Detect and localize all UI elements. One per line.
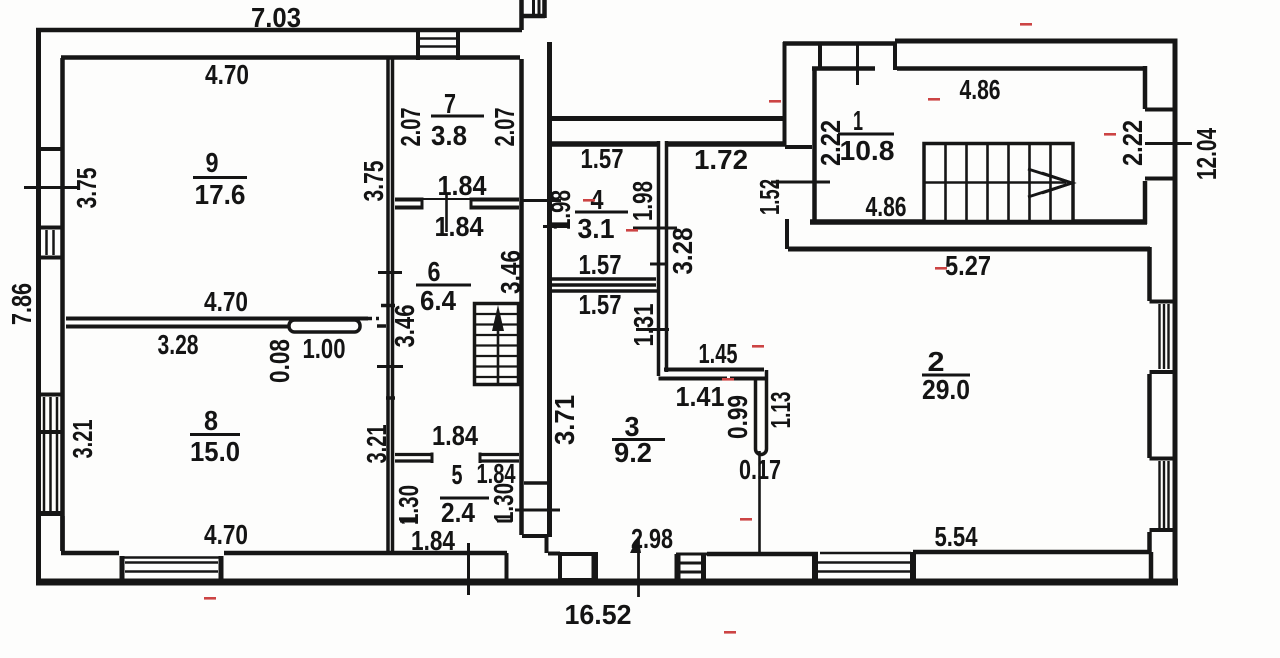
svg-text:4.70: 4.70	[204, 519, 248, 550]
svg-text:1.00: 1.00	[303, 333, 346, 364]
svg-text:16.52: 16.52	[565, 599, 632, 630]
svg-text:0.99: 0.99	[722, 395, 753, 439]
svg-text:1.84: 1.84	[438, 170, 487, 201]
svg-text:9: 9	[206, 147, 219, 178]
svg-text:4.70: 4.70	[204, 286, 248, 317]
svg-text:3.46: 3.46	[495, 250, 526, 294]
svg-text:2: 2	[928, 346, 945, 377]
svg-text:1.57: 1.57	[579, 289, 622, 320]
svg-text:2.22: 2.22	[815, 120, 846, 166]
svg-text:7.03: 7.03	[251, 2, 301, 33]
svg-text:29.0: 29.0	[922, 374, 970, 405]
svg-text:2.22: 2.22	[1117, 120, 1148, 166]
svg-text:7.86: 7.86	[6, 283, 37, 325]
svg-text:0.17: 0.17	[739, 454, 781, 485]
svg-text:1.57: 1.57	[579, 249, 622, 280]
svg-text:3.75: 3.75	[358, 161, 389, 202]
svg-text:3.8: 3.8	[431, 120, 467, 151]
svg-text:2.07: 2.07	[395, 108, 426, 147]
svg-text:1.72: 1.72	[694, 144, 748, 175]
svg-text:1: 1	[853, 105, 863, 136]
svg-text:3.75: 3.75	[71, 168, 102, 209]
svg-text:6: 6	[428, 256, 441, 287]
svg-text:1.98: 1.98	[545, 190, 576, 230]
svg-text:15.0: 15.0	[190, 436, 240, 467]
svg-text:1.45: 1.45	[699, 338, 738, 369]
svg-text:1.13: 1.13	[765, 392, 796, 429]
svg-text:3.1: 3.1	[578, 213, 615, 244]
svg-text:3.28: 3.28	[667, 228, 698, 275]
svg-text:17.6: 17.6	[195, 179, 246, 210]
svg-text:2.98: 2.98	[631, 523, 673, 554]
svg-text:10.8: 10.8	[840, 135, 895, 166]
svg-text:1.98: 1.98	[627, 181, 658, 221]
svg-text:1.84: 1.84	[432, 420, 478, 451]
svg-text:1.57: 1.57	[581, 143, 624, 174]
svg-text:1.84: 1.84	[435, 211, 484, 242]
svg-text:1.30: 1.30	[488, 483, 519, 523]
svg-text:7: 7	[444, 88, 456, 119]
svg-text:3.21: 3.21	[67, 420, 98, 459]
svg-text:8: 8	[204, 405, 218, 436]
svg-text:4.86: 4.86	[866, 191, 907, 222]
svg-text:3.46: 3.46	[389, 305, 420, 348]
svg-text:5.27: 5.27	[945, 250, 991, 281]
svg-text:5.54: 5.54	[935, 521, 978, 552]
svg-text:1.52: 1.52	[754, 179, 785, 215]
svg-text:4.70: 4.70	[205, 59, 249, 90]
svg-text:1.31: 1.31	[628, 304, 659, 347]
svg-text:3.28: 3.28	[158, 329, 199, 360]
svg-text:1.30: 1.30	[393, 485, 424, 525]
svg-text:2.07: 2.07	[489, 108, 520, 147]
svg-text:3.21: 3.21	[361, 425, 392, 464]
svg-text:0.08: 0.08	[264, 339, 295, 383]
svg-text:12.04: 12.04	[1191, 128, 1222, 180]
svg-text:1.84: 1.84	[411, 525, 455, 556]
svg-text:5: 5	[452, 459, 463, 490]
svg-text:4.86: 4.86	[960, 74, 1001, 105]
svg-text:9.2: 9.2	[614, 437, 652, 468]
svg-text:3.71: 3.71	[549, 395, 580, 445]
svg-text:2.4: 2.4	[441, 497, 475, 528]
svg-text:1.41: 1.41	[676, 381, 725, 412]
svg-text:6.4: 6.4	[420, 285, 456, 316]
